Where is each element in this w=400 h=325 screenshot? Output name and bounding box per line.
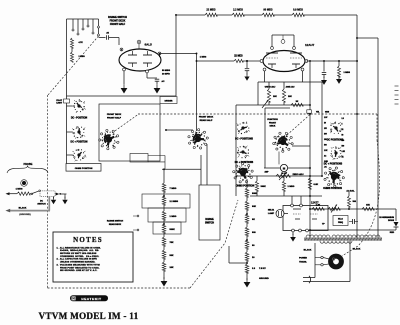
svg-text:BLACK: BLACK <box>353 248 361 251</box>
svg-text:1 MEG: 1 MEG <box>344 72 351 74</box>
svg-text:SWITCH: SWITCH <box>205 223 214 225</box>
svg-text:PROBE: PROBE <box>24 163 33 166</box>
svg-text:DC POSITIONS: DC POSITIONS <box>327 140 344 142</box>
svg-text:22 MEG: 22 MEG <box>206 9 215 12</box>
svg-text:SWITCH: SWITCH <box>37 204 46 206</box>
svg-text:DC: DC <box>40 201 44 203</box>
svg-text:DECK: DECK <box>270 126 276 128</box>
svg-text:FRONT DECK: FRONT DECK <box>199 117 214 119</box>
svg-text:7: 7 <box>121 49 122 51</box>
svg-text:LAMP: LAMP <box>268 212 275 215</box>
svg-text:HEATHKIT: HEATHKIT <box>81 297 101 301</box>
svg-text:1 MEG: 1 MEG <box>170 216 177 218</box>
svg-text:0.9 MEG: 0.9 MEG <box>293 9 303 12</box>
svg-text:OHMS POSITION: OHMS POSITION <box>323 188 342 190</box>
svg-text:K=1000, MEG=1,000,000. ALL: K=1000, MEG=1,000,000. ALL RE- <box>57 249 100 252</box>
svg-text:90K: 90K <box>252 206 256 208</box>
svg-text:FRONT HALF: FRONT HALF <box>110 23 126 26</box>
svg-text:20 MFD: 20 MFD <box>162 73 170 75</box>
svg-text:3. VOLTAGES MEASURED WITH VTV: 3. VOLTAGES MEASURED WITH VTVM <box>57 263 100 266</box>
svg-text:AC BAL: AC BAL <box>346 190 355 193</box>
svg-text:2.2 MEG: 2.2 MEG <box>170 201 179 203</box>
svg-text:2.2 MEG: 2.2 MEG <box>233 9 243 12</box>
svg-text:FREQ: FREQ <box>338 222 344 224</box>
svg-text:75K: 75K <box>170 242 174 244</box>
svg-text:ZERO ADJ: ZERO ADJ <box>293 173 305 176</box>
svg-text:AGE ADJ: AGE ADJ <box>286 86 295 89</box>
svg-text:OTHERWISE NOTED. 1% = PREC.: OTHERWISE NOTED. 1% = PREC. <box>57 256 100 258</box>
svg-text:DC - POSITIONS: DC - POSITIONS <box>235 139 253 141</box>
svg-text:LIGHT: LIGHT <box>56 103 63 105</box>
svg-text:7.5 KV: 7.5 KV <box>259 268 266 270</box>
svg-text:DC - POSITION: DC - POSITION <box>71 118 88 120</box>
svg-text:12AU7: 12AU7 <box>305 43 315 47</box>
svg-text:1 MEG: 1 MEG <box>16 188 23 190</box>
svg-text:390K: 390K <box>261 186 267 188</box>
svg-text:REAR HALF: REAR HALF <box>200 119 213 122</box>
svg-text:DC + POSITIONS: DC + POSITIONS <box>324 164 343 166</box>
svg-text:BLACK: BLACK <box>19 207 27 210</box>
svg-text:DC + POSITIONS: DC + POSITIONS <box>235 162 254 164</box>
svg-text:POWER: POWER <box>299 258 307 260</box>
svg-text:6AL5: 6AL5 <box>145 43 153 47</box>
svg-text:50: 50 <box>342 135 344 137</box>
svg-text:NOTES: NOTES <box>73 236 103 244</box>
svg-text:UNLESS OTHERWISE MARKED.: UNLESS OTHERWISE MARKED. <box>57 261 96 264</box>
svg-text:SIS GROUND. LINE AT 117 V. A.C: SIS GROUND. LINE AT 117 V. A.C. <box>57 269 98 272</box>
svg-text:FRONT: FRONT <box>269 122 277 124</box>
svg-text:DIVIDER: DIVIDER <box>165 101 173 103</box>
svg-text:(GROUND): (GROUND) <box>19 214 30 216</box>
svg-text:22 MEG: 22 MEG <box>234 56 243 58</box>
svg-text:OHMS POSITION: OHMS POSITION <box>75 168 93 170</box>
svg-text:DIODE: DIODE <box>388 220 395 222</box>
svg-text:1.2K: 1.2K <box>316 205 321 207</box>
svg-text:VTVM MODEL IM - 11: VTVM MODEL IM - 11 <box>39 311 139 321</box>
svg-text:10K: 10K <box>170 267 174 269</box>
svg-text:NE-51: NE-51 <box>268 210 275 212</box>
svg-text:90 MEG: 90 MEG <box>263 9 272 12</box>
svg-text:500: 500 <box>342 146 345 148</box>
svg-text:50 MEG: 50 MEG <box>162 70 170 72</box>
svg-text:2. ALL CAPACITOR VALUES IN MF: 2. ALL CAPACITOR VALUES IN MFD <box>57 258 98 261</box>
svg-text:7 MEG: 7 MEG <box>170 188 177 190</box>
svg-text:1. ALL RESISTANCE VALUES IN O: 1. ALL RESISTANCE VALUES IN OHMS. <box>57 246 102 249</box>
svg-text:OHMS POSITION: OHMS POSITION <box>236 186 255 188</box>
svg-text:1.5: 1.5 <box>342 118 344 120</box>
svg-text:1 MEG: 1 MEG <box>200 57 207 59</box>
svg-text:4.7K: 4.7K <box>79 41 84 44</box>
svg-text:6.8K: 6.8K <box>314 184 319 186</box>
svg-text:RANGE SWITCH: RANGE SWITCH <box>107 220 124 223</box>
svg-text:DC + POSITION: DC + POSITION <box>71 142 88 144</box>
svg-text:REAR DECK: REAR DECK <box>109 223 122 226</box>
svg-text:10K: 10K <box>273 96 277 98</box>
svg-text:FROM POINT INDICATED TO CHAS-: FROM POINT INDICATED TO CHAS- <box>57 266 100 269</box>
svg-text:1N GERMANIUM: 1N GERMANIUM <box>379 216 394 219</box>
svg-text:FRONT DECK: FRONT DECK <box>107 114 122 116</box>
svg-text:FUNCTION: FUNCTION <box>267 119 278 121</box>
svg-text:GROUND: GROUND <box>259 278 269 280</box>
svg-text:HI-LO: HI-LO <box>338 219 343 221</box>
svg-text:1 MEG: 1 MEG <box>288 186 295 188</box>
svg-text:BLACK: BLACK <box>304 249 312 252</box>
svg-text:FRONT HALF: FRONT HALF <box>107 116 122 119</box>
svg-text:RED: RED <box>390 232 395 234</box>
svg-text:500K: 500K <box>170 229 176 231</box>
svg-text:9K: 9K <box>252 219 255 221</box>
svg-text:5: 5 <box>342 124 343 126</box>
svg-text:RANGE: RANGE <box>205 218 214 221</box>
svg-text:15K: 15K <box>366 205 370 207</box>
svg-text:GRN: GRN <box>325 112 330 114</box>
svg-text:500: 500 <box>324 145 327 147</box>
svg-text:10K: 10K <box>288 96 292 98</box>
svg-text:SISTORS 1/2 WATT 10% UNLESS: SISTORS 1/2 WATT 10% UNLESS <box>57 252 97 255</box>
svg-text:UNITS ADJ: UNITS ADJ <box>265 86 275 89</box>
svg-text:50K: 50K <box>170 255 174 257</box>
svg-text:TRANS.: TRANS. <box>299 261 307 264</box>
